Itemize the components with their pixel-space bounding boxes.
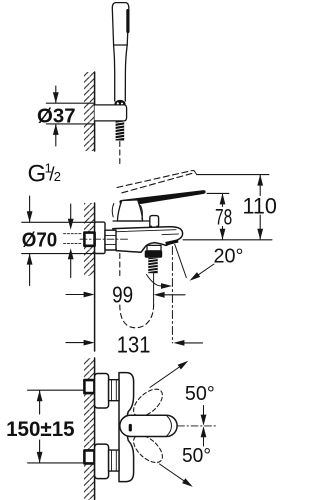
svg-text:20°: 20° xyxy=(214,245,244,267)
svg-text:50°: 50° xyxy=(182,445,211,467)
svg-text:110: 110 xyxy=(243,194,277,219)
svg-text:99: 99 xyxy=(112,281,133,307)
svg-text:78: 78 xyxy=(215,204,232,229)
svg-text:Ø37: Ø37 xyxy=(37,105,76,127)
svg-text:150±15: 150±15 xyxy=(6,418,75,441)
svg-text:131: 131 xyxy=(117,331,151,357)
svg-text:50°: 50° xyxy=(185,383,215,405)
svg-text:G: G xyxy=(28,160,47,187)
svg-text:2: 2 xyxy=(54,169,61,184)
svg-text:Ø70: Ø70 xyxy=(22,229,58,251)
